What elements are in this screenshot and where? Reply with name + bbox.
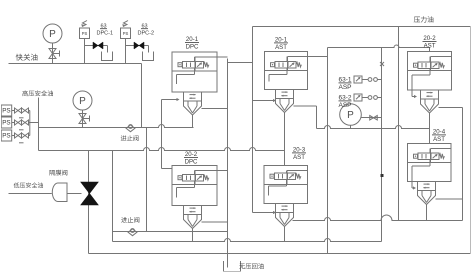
svg-text:63-2: 63-2 [338, 95, 351, 102]
svg-text:63-1: 63-1 [338, 77, 351, 84]
svg-text:ASP: ASP [338, 102, 351, 109]
svg-text:20-3: 20-3 [293, 147, 306, 154]
svg-text:PS: PS [123, 31, 129, 36]
svg-text:AST: AST [424, 42, 436, 49]
svg-text:AST: AST [293, 154, 305, 161]
svg-text:AST: AST [433, 136, 445, 143]
svg-text:DPC-1: DPC-1 [97, 31, 114, 37]
svg-text:PS: PS [2, 132, 10, 139]
svg-text:P: P [49, 29, 56, 40]
svg-text:20-2: 20-2 [423, 35, 436, 42]
svg-text:PS: PS [82, 31, 88, 36]
svg-text:20-2: 20-2 [185, 151, 198, 158]
svg-text:P: P [79, 96, 86, 107]
svg-text:PS: PS [2, 119, 10, 126]
svg-text:AST: AST [275, 44, 287, 51]
svg-text:DPC: DPC [185, 158, 198, 165]
svg-text:ASP: ASP [338, 84, 351, 91]
svg-text:20-1: 20-1 [275, 37, 288, 44]
svg-text:20-4: 20-4 [433, 129, 446, 136]
svg-text:DPC-2: DPC-2 [138, 31, 155, 37]
svg-text:DPC: DPC [186, 43, 199, 50]
svg-text:P: P [347, 110, 354, 121]
svg-text:20-1: 20-1 [186, 36, 199, 43]
svg-text:PS: PS [2, 107, 10, 114]
